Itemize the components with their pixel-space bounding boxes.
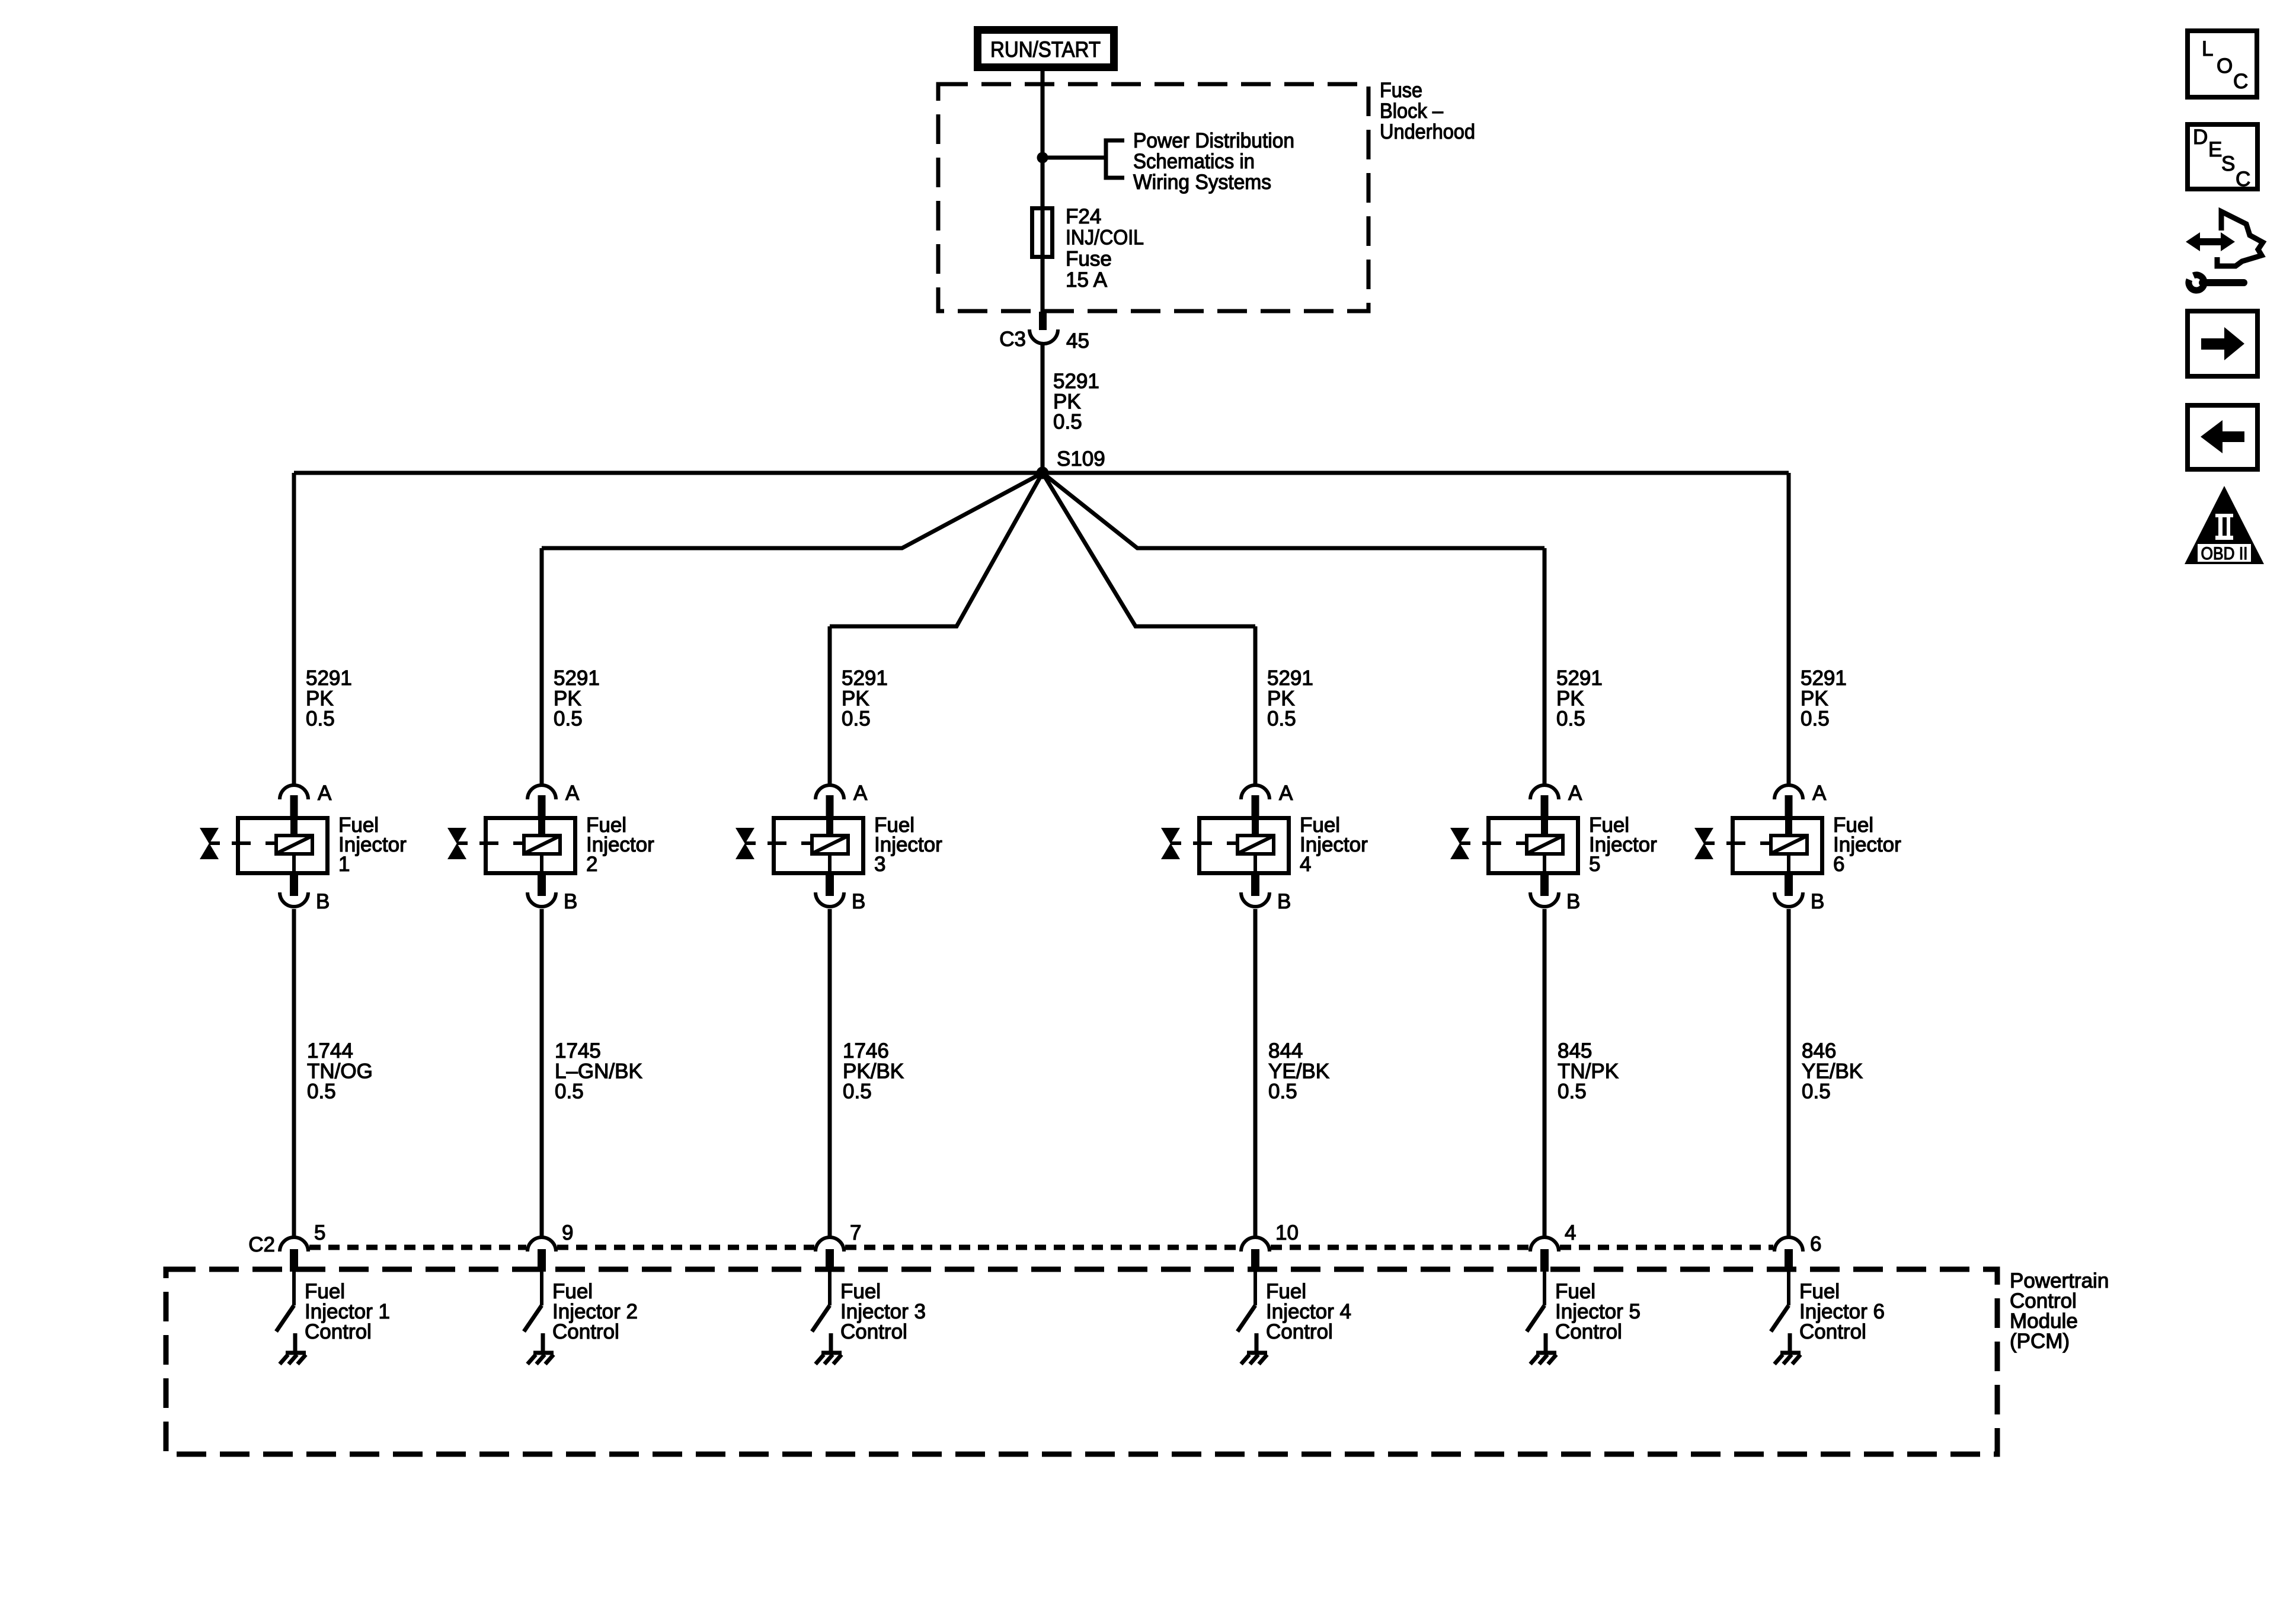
svg-text:Block –: Block –: [1380, 100, 1443, 123]
svg-text:B: B: [1566, 890, 1580, 913]
fuel injector 4 control driver: [1237, 1272, 1351, 1353]
svg-text:A: A: [565, 782, 580, 805]
svg-text:Fuse: Fuse: [1066, 247, 1112, 270]
svg-text:Control: Control: [552, 1320, 619, 1343]
svg-text:O: O: [2217, 55, 2233, 78]
svg-text:B: B: [1277, 890, 1291, 913]
svg-text:TN/PK: TN/PK: [1558, 1060, 1619, 1083]
fuel injector 1: [200, 814, 407, 876]
svg-text:5291: 5291: [1556, 667, 1603, 690]
label 5291 PK 0.5 branch 6: [1801, 667, 1847, 731]
svg-text:844: 844: [1268, 1039, 1303, 1062]
powertrain control module box: [166, 1269, 1997, 1454]
svg-text:C2: C2: [248, 1233, 275, 1256]
svg-text:Control: Control: [1555, 1320, 1622, 1343]
fuel injector 2 connector pin B: [527, 875, 577, 913]
fuel injector 1 connector pin B: [280, 875, 330, 913]
wire 5291 PK branch 3: [828, 626, 832, 785]
icon forward arrow box: [2188, 311, 2257, 376]
svg-text:1746: 1746: [843, 1039, 889, 1062]
label 5291 PK 0.5 branch 1: [306, 667, 352, 731]
svg-text:F24: F24: [1066, 205, 1101, 228]
fuel injector 5 connector pin A: [1530, 782, 1582, 816]
svg-text:Control: Control: [840, 1320, 907, 1343]
label 5291 PK 0.5: [1053, 370, 1099, 434]
fuel injector 6 control driver: [1771, 1272, 1885, 1353]
fuel injector 2 connector pin A: [527, 782, 580, 816]
connector C2 pin 5: [280, 1221, 325, 1272]
svg-text:6: 6: [1833, 853, 1844, 876]
svg-text:A: A: [1568, 782, 1582, 805]
svg-text:Underhood: Underhood: [1380, 120, 1475, 143]
svg-text:845: 845: [1558, 1039, 1592, 1062]
svg-text:6: 6: [1810, 1233, 1821, 1256]
junction node: [1037, 152, 1048, 164]
svg-text:0.5: 0.5: [1556, 708, 1585, 731]
wire 1745 L–GN/BK 0.5: [540, 909, 544, 1236]
label 5291 PK 0.5 branch 5: [1556, 667, 1603, 731]
fuel injector 5 connector pin B: [1530, 875, 1580, 913]
wire from RUN/START: [1041, 68, 1045, 158]
icon back arrow box: [2188, 405, 2257, 469]
svg-text:L: L: [2202, 37, 2213, 60]
splice S109: [1037, 467, 1049, 479]
wire 1746 PK/BK 0.5: [828, 909, 832, 1236]
svg-text:5291: 5291: [306, 667, 352, 690]
wire through fuse: [1041, 158, 1045, 318]
svg-text:0.5: 0.5: [307, 1080, 336, 1103]
svg-text:5291: 5291: [1267, 667, 1313, 690]
label Fuse Block Underhood: [1380, 79, 1475, 143]
fuel injector 6 connector pin A: [1774, 782, 1827, 816]
svg-text:OBD II: OBD II: [2201, 544, 2248, 564]
svg-text:PK: PK: [554, 687, 581, 710]
svg-text:846: 846: [1802, 1039, 1836, 1062]
svg-text:Fuse: Fuse: [1380, 79, 1422, 102]
svg-text:0.5: 0.5: [1267, 708, 1296, 731]
svg-text:0.5: 0.5: [306, 708, 335, 731]
wire 5291 PK branch 6: [1787, 473, 1791, 785]
wire 1744 TN/OG 0.5: [292, 909, 296, 1236]
svg-text:INJ/COIL: INJ/COIL: [1066, 226, 1144, 249]
icon DESC box: [2188, 124, 2257, 191]
fuel injector 3: [736, 814, 942, 876]
svg-text:Power Distribution: Power Distribution: [1133, 129, 1294, 152]
fuel injector 2 control driver: [524, 1272, 638, 1353]
icon LOC box: [2188, 31, 2257, 97]
svg-text:9: 9: [562, 1221, 573, 1244]
svg-text:0.5: 0.5: [843, 1080, 872, 1103]
label Powertrain Control Module (PCM): [2010, 1269, 2109, 1353]
svg-text:Control: Control: [1799, 1320, 1866, 1343]
svg-text:5: 5: [314, 1221, 325, 1244]
svg-text:1745: 1745: [555, 1039, 601, 1062]
wire 5291 PK branch 1: [292, 473, 296, 785]
svg-text:C: C: [2236, 168, 2250, 191]
ground for injector 2 driver: [527, 1353, 554, 1364]
svg-text:0.5: 0.5: [555, 1080, 584, 1103]
fuse F24 INJ/COIL 15 A: [1032, 205, 1144, 292]
svg-text:5: 5: [1589, 853, 1600, 876]
fuel injector 5: [1450, 814, 1657, 876]
label 5291 PK 0.5 branch 3: [842, 667, 888, 731]
fuse block underhood box: [938, 84, 1368, 311]
svg-text:YE/BK: YE/BK: [1802, 1060, 1863, 1083]
svg-text:B: B: [852, 890, 865, 913]
svg-text:A: A: [1812, 782, 1827, 805]
svg-text:5291: 5291: [554, 667, 600, 690]
svg-text:PK/BK: PK/BK: [843, 1060, 904, 1083]
label Power Distribution Schematics in Wiring Systems: [1133, 129, 1294, 194]
svg-text:B: B: [316, 890, 330, 913]
svg-text:5291: 5291: [1053, 370, 1099, 393]
fuel injector 5 control driver: [1527, 1272, 1641, 1353]
svg-text:7: 7: [850, 1221, 861, 1244]
connector C2 pin 7: [816, 1221, 861, 1272]
fuel injector 6: [1694, 814, 1901, 876]
svg-text:1: 1: [338, 853, 350, 876]
svg-text:YE/BK: YE/BK: [1268, 1060, 1329, 1083]
svg-text:PK: PK: [1267, 687, 1295, 710]
svg-text:3: 3: [874, 853, 885, 876]
svg-text:PK: PK: [1801, 687, 1828, 710]
svg-text:B: B: [564, 890, 577, 913]
svg-text:Wiring Systems: Wiring Systems: [1133, 171, 1271, 194]
svg-text:PK: PK: [842, 687, 869, 710]
fuel injector 1 control driver: [276, 1272, 390, 1353]
fuel injector 4 connector pin A: [1241, 782, 1293, 816]
ground for injector 4 driver: [1241, 1353, 1267, 1364]
svg-text:4: 4: [1565, 1221, 1576, 1244]
wire 845 TN/PK 0.5: [1543, 909, 1547, 1236]
fuel injector 3 control driver: [812, 1272, 926, 1353]
svg-text:C: C: [2233, 70, 2248, 93]
svg-text:D: D: [2193, 126, 2208, 149]
connector C2 dotted line: [309, 1245, 526, 1250]
svg-text:(PCM): (PCM): [2010, 1330, 2070, 1353]
svg-text:Schematics in: Schematics in: [1133, 150, 1255, 173]
svg-text:A: A: [318, 782, 332, 805]
branch wire to injector 4: [1043, 473, 1255, 626]
branch wire to injector 3: [830, 473, 1043, 626]
svg-text:S: S: [2221, 152, 2235, 175]
svg-text:RUN/START: RUN/START: [990, 37, 1101, 62]
svg-text:0.5: 0.5: [842, 708, 871, 731]
svg-text:B: B: [1811, 890, 1824, 913]
connector C2 pin 10: [1241, 1221, 1299, 1272]
svg-text:Control: Control: [305, 1320, 372, 1343]
svg-text:0.5: 0.5: [1268, 1080, 1297, 1103]
svg-text:PK: PK: [1556, 687, 1584, 710]
svg-text:A: A: [853, 782, 868, 805]
wire 5291 PK branch 2: [540, 548, 544, 785]
connector C2 pin 9: [527, 1221, 573, 1272]
label 5291 PK 0.5 branch 2: [554, 667, 600, 731]
svg-text:5291: 5291: [1801, 667, 1847, 690]
ground for injector 6 driver: [1774, 1353, 1801, 1364]
svg-text:0.5: 0.5: [1558, 1080, 1587, 1103]
wire to power distribution reference: [1043, 156, 1106, 160]
icon check and repair: [2186, 212, 2263, 290]
svg-text:PK: PK: [1053, 390, 1081, 413]
svg-text:2: 2: [586, 853, 597, 876]
main bus wire: [294, 471, 1789, 475]
fuel injector 2: [447, 814, 654, 876]
branch wire to injector 5: [1043, 473, 1544, 548]
wire 5291 PK branch 5: [1543, 548, 1547, 785]
ground for injector 5 driver: [1530, 1353, 1556, 1364]
wire 5291 PK branch 4: [1253, 626, 1258, 785]
ground for injector 3 driver: [816, 1353, 842, 1364]
fuel injector 3 connector pin A: [816, 782, 868, 816]
svg-text:1744: 1744: [307, 1039, 353, 1062]
fuel injector 1 connector pin A: [280, 782, 332, 816]
wire 846 YE/BK 0.5: [1787, 909, 1791, 1236]
svg-text:15 A: 15 A: [1066, 268, 1108, 292]
ground for injector 1 driver: [280, 1353, 306, 1364]
svg-text:E: E: [2208, 138, 2222, 161]
svg-text:PK: PK: [306, 687, 334, 710]
power feed box RUN/START: [978, 30, 1114, 68]
label 5291 PK 0.5 branch 4: [1267, 667, 1313, 731]
fuel injector 6 connector pin B: [1774, 875, 1824, 913]
icon OBD II triangle: [2185, 486, 2264, 564]
svg-text:45: 45: [1066, 329, 1089, 353]
branch wire to injector 2: [542, 473, 1043, 548]
svg-text:Control: Control: [1266, 1320, 1333, 1343]
svg-text:0.5: 0.5: [1053, 411, 1082, 434]
svg-text:5291: 5291: [842, 667, 888, 690]
svg-text:4: 4: [1300, 853, 1311, 876]
svg-text:0.5: 0.5: [554, 708, 583, 731]
svg-text:0.5: 0.5: [1801, 708, 1830, 731]
wire 5291 PK 0.5 feed: [1041, 344, 1045, 473]
svg-text:S109: S109: [1057, 447, 1105, 470]
connector C2 pin 4: [1530, 1221, 1576, 1272]
svg-text:0.5: 0.5: [1802, 1080, 1831, 1103]
off-page reference bracket: [1106, 140, 1124, 178]
fuel injector 4 connector pin B: [1241, 875, 1291, 913]
wire 844 YE/BK 0.5: [1253, 909, 1258, 1236]
svg-text:A: A: [1279, 782, 1293, 805]
svg-text:L–GN/BK: L–GN/BK: [555, 1060, 642, 1083]
connector C2 pin 6: [1774, 1233, 1821, 1272]
fuel injector 3 connector pin B: [816, 875, 865, 913]
fuel injector 4: [1161, 814, 1368, 876]
svg-text:C3: C3: [999, 328, 1026, 351]
connector C3 pin 45: [999, 312, 1089, 353]
svg-text:10: 10: [1275, 1221, 1299, 1244]
svg-text:TN/OG: TN/OG: [307, 1060, 373, 1083]
